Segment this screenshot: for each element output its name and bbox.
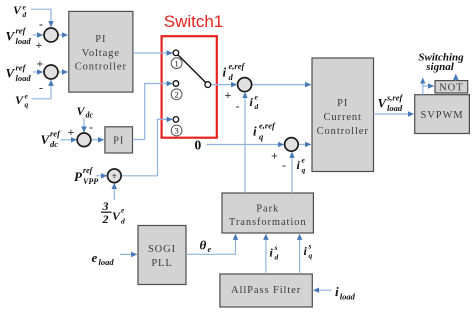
label iq_s [304,242,313,261]
circled 2 [171,89,182,100]
svg-text:d: d [121,217,125,226]
svg-text:+: + [225,88,232,102]
svg-text:q: q [25,100,29,109]
label 3/2 Vd_e [101,199,125,226]
wire S6 to PIC [298,143,311,145]
svg-text:load: load [340,292,356,302]
svg-text:e,ref: e,ref [259,121,276,131]
switch lever [178,55,205,82]
svg-text:V: V [77,104,86,118]
wire S3 to PI [91,139,104,141]
block SVPWM [415,95,470,134]
svg-text:+: + [36,38,43,52]
label theta_e [200,238,212,255]
svg-text:-: - [39,81,43,95]
svg-text:2: 2 [174,90,178,100]
wire eload to SOGI [120,253,137,255]
svg-text:Transformation: Transformation [229,217,307,228]
svg-text:ref: ref [83,166,94,175]
wire Vd_e [31,9,51,27]
svg-text:AllPass Filter: AllPass Filter [231,285,301,296]
svg-text:i: i [335,284,339,299]
wire S2 to PIV [58,71,67,73]
svg-text:e: e [208,245,212,254]
sum S1 [44,28,58,42]
svg-text:PI: PI [113,136,124,147]
label Vd_e [13,3,27,20]
label Vload_ref 1 [6,26,32,47]
wire Vq_e [32,80,51,99]
svg-text:SOGI: SOGI [148,244,176,255]
svg-text:e: e [92,250,98,265]
label Vdc_ref [41,129,62,150]
svg-text:Switch1: Switch1 [164,12,224,31]
svg-text:load: load [16,36,32,46]
wire S5 to PIC [252,84,311,86]
sum S2 [44,65,58,79]
wire AllPass to Park iqs [299,234,301,274]
svg-text:3: 3 [174,126,178,136]
block NOT [435,81,468,94]
wire NOT up [455,74,457,80]
wire PI to contact2 [133,84,173,140]
svg-text:PI: PI [337,98,348,109]
svg-text:SVPWM: SVPWM [420,110,463,121]
svg-text:dc: dc [50,139,58,149]
wire Vdcref [61,139,77,141]
svg-text:s,ref: s,ref [386,93,404,103]
svg-text:ref: ref [16,26,27,36]
svg-text:V: V [41,132,51,147]
svg-text:÷: ÷ [112,171,117,181]
svg-text:Controller: Controller [75,62,127,73]
label eload [92,250,115,267]
block PI (dc loop) [105,127,133,153]
circled 1 [171,58,182,69]
wire Park to S6 [291,152,293,193]
label id_e [250,93,259,112]
svg-text:e,ref: e,ref [229,61,246,71]
svg-text:dc: dc [86,111,94,120]
svg-text:+: + [68,125,75,139]
label Vload_sref [378,93,404,114]
switch1 red frame [162,36,217,138]
svg-text:s: s [308,242,312,251]
svg-text:θ: θ [200,238,207,253]
svg-text:V: V [13,3,22,17]
svg-text:NOT: NOT [439,83,463,94]
svg-text:+: + [37,57,44,71]
svg-text:d: d [255,102,259,111]
svg-text:V: V [6,29,16,44]
svg-text:-: - [89,120,93,134]
switch contact 1 [173,50,179,56]
wire SOGI theta to Park [186,234,236,254]
svg-text:+: + [271,149,278,163]
block PI Current Controller [312,58,374,172]
sum S3 [77,133,91,147]
wire Vload_ref 1 [33,34,43,36]
svg-text:PLL: PLL [151,258,172,269]
svg-text:d: d [275,253,279,262]
wire 0 to S6 [207,144,284,146]
svg-text:ref: ref [16,63,27,73]
svg-text:i: i [223,65,227,80]
label id_s [270,243,279,262]
wire PIV to contact1 [133,52,172,54]
block SOGI PLL [138,226,186,285]
block AllPass Filter [220,274,312,307]
wire iload to AllPass [314,289,332,291]
wire AllPass to Park ids [265,234,267,274]
label iload [335,284,356,302]
svg-text:V: V [112,209,121,223]
svg-text:V: V [378,96,388,111]
switch pole [205,82,211,88]
svg-text:load: load [99,257,115,267]
svg-text:-: - [236,99,240,113]
svg-text:0: 0 [195,137,202,152]
wire S1 to PIV [58,34,67,36]
wire SVPWM up [422,78,424,95]
wire 3/2Vd up [113,183,115,200]
svg-text:Controller: Controller [317,126,369,137]
svg-text:V: V [6,66,16,81]
wire branch to NOT [423,85,434,87]
wire Pvpp to S4 [96,175,107,177]
svg-text:s: s [274,243,278,252]
svg-text:load: load [387,103,403,113]
svg-text:Voltage: Voltage [82,48,120,59]
label Vdc [77,104,94,120]
wire pole to S5 [211,84,237,86]
switch contact 3 [173,117,179,123]
svg-text:signal: signal [425,61,454,73]
block PI Voltage Controller [69,11,133,92]
wire Vdc down [83,118,85,132]
label iq_eref [253,121,276,142]
svg-text:-: - [39,17,43,31]
sum S4 divide [108,169,122,183]
circled 3 [171,125,182,136]
svg-text:ref: ref [50,129,61,139]
switch contact 2 [173,81,179,87]
svg-text:q: q [302,166,306,175]
label Pvpp_ref [74,166,98,186]
svg-text:d: d [23,10,27,19]
label Vload_ref 2 [6,63,32,84]
svg-text:1: 1 [174,58,178,68]
svg-text:-: - [282,158,286,172]
svg-text:q: q [309,251,313,260]
svg-text:load: load [16,73,32,83]
block Park Transformation [222,193,313,233]
svg-text:VPP: VPP [83,177,98,186]
sum S6 [285,138,299,152]
svg-text:Current: Current [324,112,362,123]
label Switching signal [418,52,464,74]
label Vq_e [15,92,29,110]
svg-text:3: 3 [102,199,109,213]
svg-text:2: 2 [102,212,109,226]
sum S5 [238,78,252,92]
svg-text:V: V [15,93,24,107]
wire S4 to contact3 [121,119,172,175]
svg-text:PI: PI [95,34,106,45]
label id_eref [223,61,246,82]
svg-text:Park: Park [256,204,279,215]
svg-text:P: P [74,169,83,184]
wire PIC to SVPWM [374,113,414,115]
wire Park to S5 [244,93,246,194]
svg-text:i: i [253,124,257,139]
wire Vload_ref 2 [33,71,43,73]
label iq_e [297,156,306,175]
